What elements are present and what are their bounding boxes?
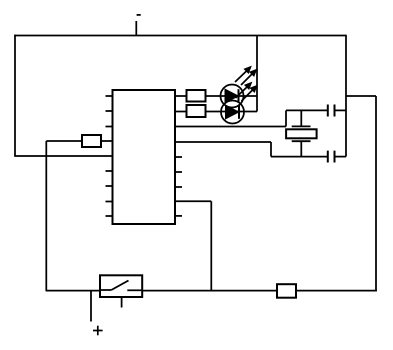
wire left edge of outer loop — [14, 35, 16, 156]
node positive terminal stub — [90, 291, 92, 322]
wire R1 to LED D1 and rail — [206, 95, 258, 97]
pin 1 left stub — [106, 95, 113, 97]
resistor R2 — [175, 105, 206, 117]
wire right edge of outer loop — [345, 35, 347, 157]
wire R2 to LED D2 and rail — [206, 111, 258, 113]
wire outer loop bottom edge to IC — [14, 155, 112, 157]
LED D1 — [221, 67, 257, 108]
pin right stub row5 — [175, 156, 182, 158]
wire IC pin4 to crystal top / C1 — [175, 110, 328, 126]
wire IC pin5 to crystal bottom / C2 — [175, 142, 328, 157]
pin 3 left stub — [106, 126, 113, 128]
switch S1 — [100, 275, 142, 307]
capacitor C2 — [328, 151, 346, 163]
wire LED cathode rail vertical — [256, 36, 258, 112]
wire top rail (negative bus) — [14, 35, 346, 37]
wire IC pin8 right to bottom rail — [175, 201, 211, 290]
node negative terminal stub — [135, 21, 137, 36]
resistor R3 — [277, 284, 296, 298]
resistor R4 — [46, 135, 112, 147]
pin 7 left stub — [106, 185, 113, 187]
wire bottom rail (positive bus) — [46, 290, 377, 292]
pin 8 left stub — [106, 201, 113, 203]
pin right stub row9 — [175, 215, 182, 217]
crystal Y1 — [286, 110, 317, 156]
wire left vertical from R4 to bottom rail — [45, 141, 47, 291]
label + (positive terminal) — [93, 326, 103, 336]
pin right stub row6 — [175, 171, 182, 173]
pin 9 left stub — [106, 215, 113, 217]
IC U1 — [113, 90, 176, 224]
wire far-right vertical — [375, 96, 377, 291]
pin 6 left stub — [106, 170, 113, 172]
resistor R1 — [175, 90, 206, 102]
pin right stub row7 — [175, 186, 182, 188]
wire branch to far-right vertical — [346, 95, 376, 97]
capacitor C1 — [328, 105, 346, 117]
label - (negative terminal) — [137, 14, 141, 16]
LED D2 — [221, 83, 257, 124]
pin 2 left stub — [106, 110, 113, 112]
